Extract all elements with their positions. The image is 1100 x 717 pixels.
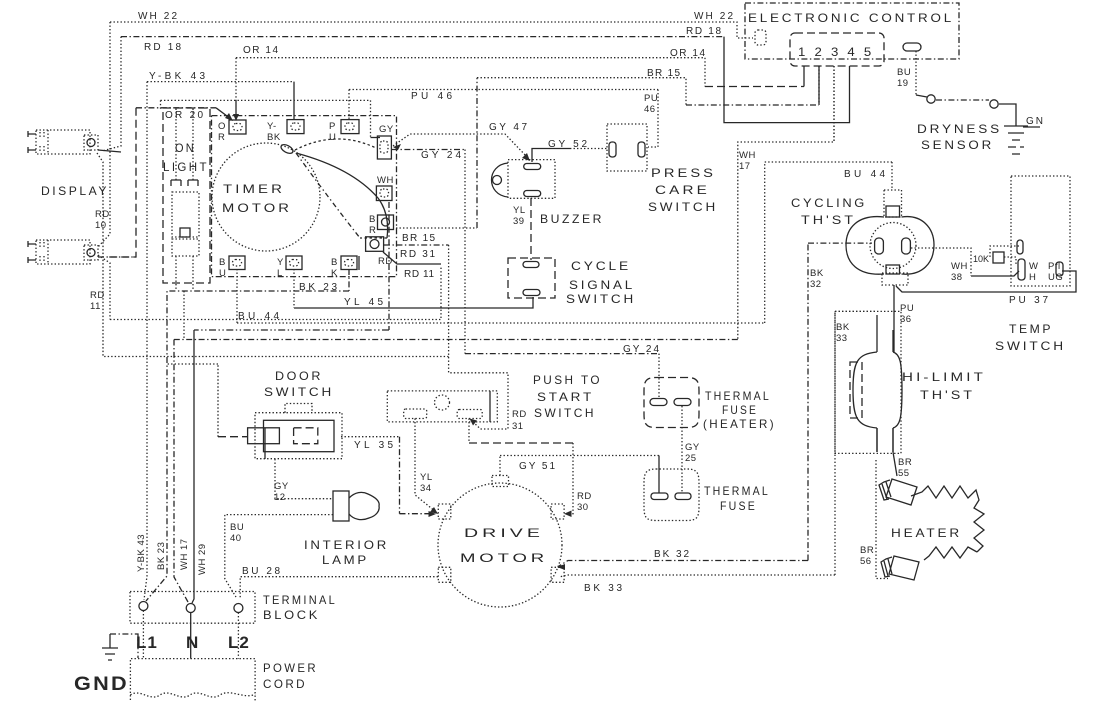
svg-text:GN: GN: [1026, 116, 1044, 127]
svg-text:SWITCH: SWITCH: [264, 385, 334, 399]
svg-text:GY 52: GY 52: [548, 139, 588, 150]
svg-text:WH 22: WH 22: [138, 11, 178, 22]
svg-text:TERMINAL: TERMINAL: [263, 593, 337, 607]
svg-text:PUSH TO: PUSH TO: [533, 373, 602, 387]
svg-text:1 2 3 4 5: 1 2 3 4 5: [798, 45, 874, 59]
timer terminal BR: [369, 214, 394, 236]
svg-text:R: R: [369, 225, 376, 236]
timer terminal GY: [377, 124, 393, 159]
svg-text:GY: GY: [379, 124, 394, 135]
timer terminal Y-BK: [267, 120, 304, 143]
svg-text:56: 56: [860, 556, 872, 567]
svg-text:RD: RD: [90, 290, 105, 301]
wire YL 45: [294, 269, 533, 308]
svg-text:GY 24: GY 24: [623, 344, 660, 355]
svg-text:START: START: [537, 390, 594, 404]
on light: [163, 108, 210, 339]
svg-text:CORD: CORD: [263, 677, 307, 691]
post N: [186, 604, 195, 613]
wire BR 15: [396, 66, 819, 244]
svg-text:INTERIOR: INTERIOR: [304, 538, 389, 552]
wire BK 23: [146, 269, 349, 601]
svg-text:39: 39: [513, 216, 525, 227]
svg-text:33: 33: [836, 333, 848, 344]
svg-text:RD: RD: [95, 209, 110, 220]
svg-text:BU 28: BU 28: [242, 566, 281, 577]
timer terminal WH: [376, 175, 393, 201]
wire GY 47: [393, 122, 530, 161]
EC sensor terminal: [903, 43, 921, 51]
hi-limit thermostat: [835, 311, 986, 453]
svg-text:CARE: CARE: [655, 183, 710, 197]
svg-text:BK 23: BK 23: [156, 542, 167, 570]
wire BU 40: [225, 515, 333, 597]
electronic control U1: [745, 3, 959, 141]
svg-text:SWITCH: SWITCH: [995, 339, 1066, 353]
svg-text:RD: RD: [512, 409, 527, 420]
terminal block: [130, 592, 337, 624]
wire WH 17: [174, 66, 834, 602]
svg-text:BR: BR: [860, 545, 874, 556]
wire GY 51: [500, 456, 659, 494]
svg-text:PU 46: PU 46: [411, 91, 453, 102]
svg-text:LAMP: LAMP: [322, 553, 369, 567]
svg-text:BR 15: BR 15: [647, 68, 681, 79]
display connector upper: [28, 130, 121, 154]
svg-text:HI-LIMIT: HI-LIMIT: [902, 370, 986, 384]
heater element: [891, 486, 984, 560]
svg-text:BR 15: BR 15: [402, 233, 436, 244]
svg-text:SIGNAL: SIGNAL: [569, 278, 635, 292]
svg-text:YL 35: YL 35: [354, 440, 394, 451]
svg-text:U: U: [329, 132, 336, 143]
svg-text:RD: RD: [577, 491, 592, 502]
wire RD 31: [384, 245, 527, 432]
svg-text:Y: Y: [277, 257, 284, 268]
svg-text:MOTOR: MOTOR: [222, 201, 292, 215]
thermal fuse: [644, 469, 770, 521]
post L1: [139, 602, 148, 611]
sensor contact right: [990, 100, 998, 108]
sensor contact left: [927, 95, 935, 103]
wire GY 25: [682, 406, 700, 492]
svg-text:RD 18: RD 18: [686, 26, 722, 37]
svg-text:GY 47: GY 47: [489, 122, 528, 133]
svg-text:YL: YL: [513, 205, 526, 216]
timer terminal YL: [277, 256, 302, 279]
press care switch: [607, 124, 718, 214]
wire OR 14: [233, 45, 804, 121]
motor terminal YL: [438, 504, 451, 519]
svg-text:12: 12: [274, 492, 286, 503]
cycling thermostat: [791, 190, 934, 285]
svg-text:THERMAL: THERMAL: [705, 389, 771, 403]
svg-text:LIGHT: LIGHT: [163, 160, 209, 174]
svg-text:GY: GY: [685, 442, 700, 453]
svg-text:Y-BK 43: Y-BK 43: [136, 534, 147, 572]
wire BU 44: [237, 162, 892, 323]
svg-text:19: 19: [897, 78, 909, 89]
wire WH 29: [192, 202, 389, 603]
svg-text:10K: 10K: [973, 254, 989, 264]
timer terminal BK: [331, 256, 359, 279]
wire BK 33: [559, 311, 877, 594]
wire BR 56: [860, 460, 888, 579]
svg-text:BUZZER: BUZZER: [540, 212, 604, 226]
post L2: [234, 604, 243, 613]
ground GND: [74, 634, 138, 695]
svg-text:SENSOR: SENSOR: [921, 138, 994, 152]
svg-text:GY 24: GY 24: [421, 150, 462, 161]
svg-text:RD 11: RD 11: [404, 269, 435, 280]
push to start switch: [387, 373, 602, 422]
wire BK 32: [557, 243, 872, 570]
wire GY 52: [532, 139, 608, 162]
display connector lower: [28, 240, 136, 264]
wire PU 36: [894, 285, 914, 352]
resistor 10K: [973, 246, 1019, 266]
svg-text:WH: WH: [951, 261, 968, 272]
svg-text:SWITCH: SWITCH: [566, 292, 636, 306]
motor terminal BU28: [438, 567, 451, 582]
temp switch: [995, 176, 1070, 353]
svg-text:GY: GY: [274, 481, 289, 492]
svg-text:DRIVE: DRIVE: [464, 526, 544, 540]
timer motor circle: [212, 143, 320, 251]
svg-text:FUSE: FUSE: [720, 499, 757, 513]
drive motor: [438, 476, 564, 608]
svg-text:31: 31: [512, 421, 524, 432]
buzzer: [492, 160, 605, 226]
svg-text:THERMAL: THERMAL: [704, 484, 770, 498]
svg-text:DISPLAY: DISPLAY: [41, 184, 109, 198]
wire RD 30: [469, 419, 592, 518]
svg-text:U: U: [219, 268, 226, 279]
svg-text:PU: PU: [900, 303, 914, 314]
wire PU 46: [161, 90, 659, 148]
wire WH 38: [911, 248, 1019, 283]
power cord: [130, 611, 318, 703]
svg-text:OR 20: OR 20: [165, 110, 204, 121]
svg-text:ELECTRONIC CONTROL: ELECTRONIC CONTROL: [748, 11, 954, 25]
svg-text:(HEATER): (HEATER): [703, 417, 776, 431]
wire BU 28: [240, 566, 438, 598]
wire YL 34: [415, 419, 438, 515]
svg-text:YL: YL: [420, 472, 433, 483]
motor terminal BK: [551, 567, 564, 582]
svg-text:N: N: [186, 633, 198, 652]
svg-text:UG: UG: [1048, 272, 1063, 283]
svg-text:TH'ST: TH'ST: [920, 388, 975, 402]
svg-text:WH: WH: [377, 175, 394, 186]
svg-text:BU: BU: [230, 522, 244, 533]
svg-text:RD 31: RD 31: [400, 249, 436, 260]
svg-text:DOOR: DOOR: [275, 369, 323, 383]
cycle signal switch: [508, 258, 636, 306]
svg-text:WH 22: WH 22: [694, 11, 734, 22]
EC pin 2 and pin 3 wires: [819, 66, 834, 141]
svg-text:GY 51: GY 51: [519, 461, 556, 472]
svg-text:BU: BU: [897, 67, 911, 78]
svg-text:WH 29: WH 29: [197, 543, 208, 575]
EC input terminal: [755, 30, 766, 45]
svg-text:17: 17: [739, 161, 751, 172]
svg-text:R: R: [218, 132, 225, 143]
wire WH 22: [98, 11, 753, 247]
svg-text:GND: GND: [74, 674, 129, 695]
svg-text:BLOCK: BLOCK: [263, 608, 320, 622]
dryness sensor: [897, 51, 1016, 152]
svg-text:SWITCH: SWITCH: [648, 200, 718, 214]
timer terminal BU: [219, 256, 245, 279]
svg-text:PU 37: PU 37: [1009, 295, 1049, 306]
svg-text:PRESS: PRESS: [651, 166, 716, 180]
svg-text:32: 32: [810, 279, 822, 290]
svg-text:BU 44: BU 44: [238, 311, 280, 322]
svg-text:BU 44: BU 44: [844, 169, 886, 180]
svg-text:Y-: Y-: [267, 121, 277, 132]
svg-text:WH: WH: [739, 150, 756, 161]
svg-text:TH'ST: TH'ST: [801, 213, 856, 227]
svg-text:PU: PU: [644, 93, 658, 104]
timer cam curves: [280, 139, 388, 238]
svg-text:BK 23: BK 23: [299, 282, 338, 293]
svg-text:B: B: [331, 257, 338, 268]
svg-text:BK: BK: [267, 132, 281, 143]
svg-text:BK: BK: [836, 322, 850, 333]
motor terminal RD30: [551, 504, 564, 519]
wire GY 12: [274, 459, 332, 503]
svg-text:BK 32: BK 32: [654, 549, 690, 560]
wire RD 11: [90, 252, 441, 320]
motor terminal GY51: [492, 476, 509, 487]
svg-text:W: W: [1029, 261, 1038, 272]
wire YL 35: [341, 437, 436, 517]
svg-text:TIMER: TIMER: [223, 182, 285, 196]
svg-text:HEATER: HEATER: [891, 526, 962, 540]
svg-text:L2: L2: [228, 633, 250, 652]
svg-text:CYCLE: CYCLE: [571, 259, 631, 273]
EC connector block: [790, 33, 884, 66]
ground GN: [1004, 116, 1044, 154]
svg-text:55: 55: [898, 468, 910, 479]
timer terminal OR: [218, 120, 246, 143]
timer motor box: [212, 116, 397, 277]
wire OR 20: [106, 108, 233, 257]
svg-text:SWITCH: SWITCH: [534, 406, 596, 420]
svg-text:BR: BR: [898, 457, 912, 468]
thermal fuse (heater): [644, 378, 776, 432]
wire YL 39: [513, 198, 531, 260]
svg-text:11: 11: [90, 301, 101, 312]
svg-text:34: 34: [420, 483, 432, 494]
svg-text:BK: BK: [810, 268, 824, 279]
svg-text:H: H: [1029, 272, 1036, 283]
svg-text:RD 18: RD 18: [144, 42, 182, 53]
wire PU 37: [896, 271, 1076, 306]
svg-text:CYCLING: CYCLING: [791, 196, 867, 210]
svg-text:L1: L1: [136, 633, 158, 652]
svg-text:DRYNESS: DRYNESS: [917, 122, 1002, 136]
svg-text:L: L: [277, 268, 283, 279]
svg-text:P: P: [329, 121, 336, 132]
svg-text:30: 30: [577, 502, 589, 513]
svg-text:25: 25: [685, 453, 697, 464]
svg-text:46: 46: [644, 104, 656, 115]
interior lamp: [304, 491, 389, 567]
timer terminal RD: [366, 237, 393, 267]
svg-text:K: K: [331, 268, 338, 279]
heater plug lower: [881, 556, 919, 580]
timer terminal PU: [329, 120, 359, 143]
svg-text:10: 10: [95, 220, 107, 231]
svg-text:B: B: [369, 214, 376, 225]
svg-text:O: O: [218, 121, 226, 132]
svg-text:36: 36: [900, 314, 912, 325]
svg-text:RD: RD: [378, 256, 393, 267]
wire GY 24: [392, 150, 660, 399]
door switch: [167, 364, 342, 459]
svg-text:WH 17: WH 17: [179, 538, 190, 570]
svg-text:FUSE: FUSE: [722, 403, 758, 417]
wire RD 10: [95, 153, 450, 357]
svg-text:40: 40: [230, 533, 242, 544]
svg-text:OR 14: OR 14: [670, 48, 706, 59]
wire BR 55: [877, 428, 912, 479]
svg-text:BK 33: BK 33: [584, 583, 623, 594]
svg-text:Pfl: Pfl: [1048, 261, 1061, 272]
svg-text:POWER: POWER: [263, 661, 318, 675]
svg-text:B: B: [219, 257, 226, 268]
svg-text:38: 38: [951, 272, 963, 283]
wire RD 18: [102, 26, 850, 151]
svg-text:TEMP: TEMP: [1009, 322, 1053, 336]
svg-text:YL 45: YL 45: [344, 297, 384, 308]
heater plug upper: [879, 479, 917, 505]
svg-text:OR 14: OR 14: [243, 45, 279, 56]
wire Y-BK 43: [144, 71, 294, 600]
svg-text:MOTOR: MOTOR: [460, 551, 548, 565]
